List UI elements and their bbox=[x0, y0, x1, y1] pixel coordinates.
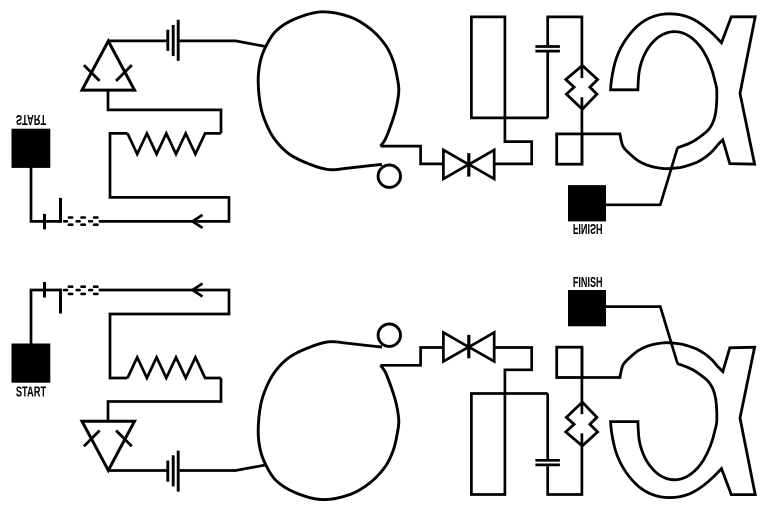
wire E-shape with top bar bbox=[99, 290, 229, 378]
node bubble on Q bbox=[378, 324, 400, 346]
Q blob loop bbox=[258, 342, 399, 500]
valve V1 right triangle bbox=[469, 333, 494, 362]
wire through diamond up to square loop bbox=[581, 347, 584, 414]
amplifier A1 triangle bbox=[82, 421, 135, 470]
FINISH pad S2 bbox=[568, 290, 606, 326]
wire from capacitor C2 to diamond bbox=[548, 433, 582, 494]
capacitor C1 plate 1 bbox=[166, 461, 169, 482]
capacitor C2 top plate bbox=[535, 459, 560, 462]
svg-text:START: START bbox=[16, 384, 47, 401]
valve V1 left triangle bbox=[443, 333, 468, 362]
capacitor C1 plate 3 bbox=[177, 451, 180, 492]
wire from START to battery bbox=[31, 290, 61, 345]
alpha letter path bbox=[582, 343, 755, 498]
svg-text:FINISH: FINISH bbox=[573, 274, 603, 291]
wire from triangle to capacitor bbox=[108, 469, 166, 472]
battery B1 long plate bbox=[59, 289, 62, 314]
valve V1 stem bbox=[467, 335, 470, 359]
square loop L1 bbox=[557, 347, 582, 377]
mirrored top half bbox=[12, 12, 756, 237]
capacitor C2 bottom plate bbox=[535, 464, 560, 467]
battery B1 short plate bbox=[43, 282, 46, 298]
wire from FINISH to alpha bbox=[606, 307, 678, 364]
wire step from Q to valve bbox=[381, 348, 444, 366]
lamp D1 zigzag diamond bbox=[566, 402, 598, 446]
wire E-shape bottom bar bbox=[108, 378, 221, 421]
START pad S1 bbox=[12, 344, 51, 383]
arrow on top bar bbox=[193, 284, 203, 297]
fuse F1 dashed link bbox=[63, 285, 99, 295]
wire from valve through rectangle loop bbox=[471, 348, 547, 495]
resistor R1 bbox=[128, 357, 222, 378]
capacitor C1 plate 2 bbox=[172, 455, 175, 486]
wire down to capacitor C2 bbox=[546, 394, 549, 460]
amplifier A1 cross marks bbox=[84, 431, 132, 447]
wire from capacitor to Q blob bbox=[180, 465, 266, 471]
